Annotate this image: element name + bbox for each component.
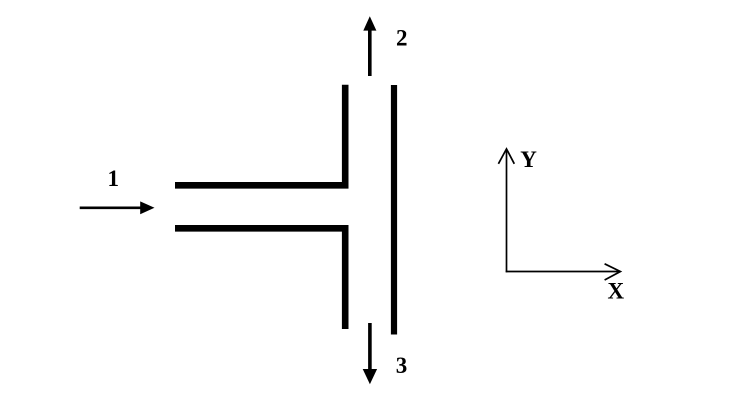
svg-text:3: 3 bbox=[396, 353, 408, 378]
svg-text:X: X bbox=[607, 279, 624, 304]
label 3 bbox=[396, 353, 408, 378]
label X bbox=[607, 279, 624, 304]
svg-text:Y: Y bbox=[520, 147, 537, 172]
label 1 bbox=[107, 166, 119, 191]
port 2 arrow bbox=[363, 16, 376, 76]
X axis bbox=[506, 264, 621, 280]
label Y bbox=[520, 147, 537, 172]
port 1 arrow bbox=[80, 201, 155, 214]
wire: top-left channel wall (L-shape) bbox=[175, 85, 345, 186]
Y axis bbox=[498, 149, 514, 272]
wire: right channel wall (vertical bar) bbox=[391, 85, 397, 335]
svg-text:1: 1 bbox=[107, 166, 119, 191]
svg-text:2: 2 bbox=[396, 26, 408, 51]
port 3 arrow bbox=[363, 323, 377, 384]
label 2 bbox=[396, 26, 408, 51]
wire: bottom-left channel wall (L-shape) bbox=[175, 228, 345, 329]
